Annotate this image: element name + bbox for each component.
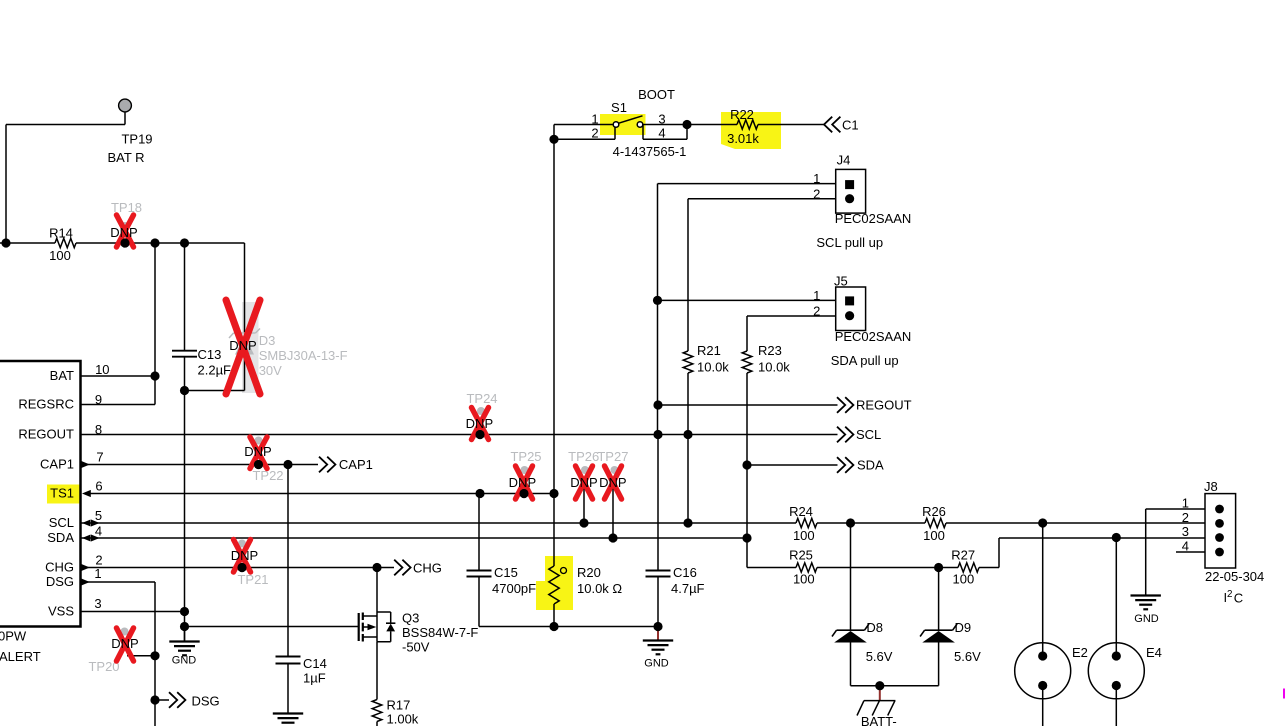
svg-text:TP26: TP26	[568, 449, 599, 464]
svg-text:SDA: SDA	[857, 458, 884, 473]
svg-text:4700pF: 4700pF	[492, 581, 536, 596]
svg-text:C15: C15	[494, 565, 518, 580]
svg-text:C14: C14	[303, 656, 327, 671]
svg-text:PEC02SAAN: PEC02SAAN	[835, 329, 912, 344]
svg-text:TS1: TS1	[50, 485, 74, 500]
svg-text:REGSRC: REGSRC	[18, 396, 74, 411]
svg-text:SMBJ30A-13-F: SMBJ30A-13-F	[259, 348, 348, 363]
svg-text:2.2µF: 2.2µF	[198, 363, 232, 378]
svg-text:R14: R14	[49, 226, 73, 241]
svg-text:3.01k: 3.01k	[727, 131, 759, 146]
svg-text:PEC02SAAN: PEC02SAAN	[835, 211, 912, 226]
svg-text:DNP: DNP	[509, 475, 536, 490]
svg-text:BAT: BAT	[50, 368, 74, 383]
svg-text:DNP: DNP	[570, 475, 597, 490]
svg-text:DNP: DNP	[599, 475, 626, 490]
svg-text:10.0k: 10.0k	[697, 360, 729, 375]
svg-text:1: 1	[813, 288, 820, 303]
svg-text:4: 4	[658, 126, 665, 141]
svg-text:3: 3	[94, 596, 101, 611]
svg-text:S1: S1	[611, 100, 627, 115]
svg-text:R26: R26	[922, 504, 946, 519]
svg-text:100: 100	[49, 248, 71, 263]
svg-text:TP27: TP27	[597, 449, 628, 464]
svg-text:3: 3	[658, 112, 665, 127]
svg-text:DNP: DNP	[466, 416, 493, 431]
svg-text:9: 9	[95, 392, 102, 407]
svg-text:Q3: Q3	[402, 611, 419, 626]
svg-text:DSG: DSG	[46, 574, 74, 589]
svg-text:DNP: DNP	[231, 548, 258, 563]
svg-text:100: 100	[923, 528, 945, 543]
svg-text:R24: R24	[789, 504, 813, 519]
svg-text:R22: R22	[730, 107, 754, 122]
svg-text:5.6V: 5.6V	[954, 649, 981, 664]
svg-text:C13: C13	[198, 347, 222, 362]
svg-text:CHG: CHG	[413, 561, 442, 576]
svg-text:J5: J5	[834, 274, 848, 289]
svg-text:10.0k: 10.0k	[758, 360, 790, 375]
svg-text:TP21: TP21	[237, 572, 268, 587]
svg-text:1: 1	[1182, 496, 1189, 511]
svg-text:2: 2	[591, 126, 598, 141]
svg-text:30V: 30V	[259, 363, 282, 378]
svg-text:CAP1: CAP1	[40, 456, 74, 471]
svg-text:GND: GND	[172, 655, 197, 667]
svg-text:1: 1	[591, 112, 598, 127]
svg-text:DNP: DNP	[110, 225, 137, 240]
svg-text:R20: R20	[577, 565, 601, 580]
svg-text:REGOUT: REGOUT	[856, 398, 912, 413]
svg-text:ALERT: ALERT	[0, 649, 41, 664]
svg-text:1: 1	[813, 171, 820, 186]
svg-text:10: 10	[95, 362, 109, 377]
svg-text:J8: J8	[1204, 479, 1218, 494]
svg-text:C: C	[1234, 591, 1243, 606]
svg-text:VSS: VSS	[48, 603, 74, 618]
svg-text:4-1437565-1: 4-1437565-1	[613, 144, 687, 159]
svg-text:GND: GND	[644, 658, 669, 670]
svg-text:BSS84W-7-F: BSS84W-7-F	[402, 625, 478, 640]
svg-text:D9: D9	[955, 620, 972, 635]
svg-text:TP25: TP25	[510, 449, 541, 464]
svg-text:SCL: SCL	[856, 427, 881, 442]
svg-text:R23: R23	[758, 343, 782, 358]
svg-text:DNP: DNP	[229, 338, 256, 353]
svg-text:R21: R21	[697, 343, 721, 358]
svg-text:0PW: 0PW	[0, 629, 27, 644]
svg-text:R27: R27	[951, 548, 975, 563]
svg-text:C1: C1	[842, 118, 859, 133]
svg-text:BATT-: BATT-	[861, 714, 897, 726]
svg-text:DNP: DNP	[111, 636, 138, 651]
svg-text:5: 5	[95, 508, 102, 523]
svg-text:2: 2	[1182, 510, 1189, 525]
svg-text:E4: E4	[1146, 645, 1162, 660]
svg-text:CAP1: CAP1	[339, 457, 373, 472]
svg-text:4: 4	[95, 523, 102, 538]
svg-text:CHG: CHG	[45, 559, 74, 574]
svg-text:7: 7	[96, 450, 103, 465]
svg-text:10.0k Ω: 10.0k Ω	[577, 581, 622, 596]
svg-text:E2: E2	[1072, 645, 1088, 660]
svg-text:R25: R25	[789, 548, 813, 563]
svg-text:100: 100	[793, 571, 815, 586]
svg-text:SCL: SCL	[49, 515, 74, 530]
svg-text:REGOUT: REGOUT	[18, 426, 74, 441]
svg-text:4: 4	[1182, 539, 1189, 554]
svg-text:SDA pull up: SDA pull up	[831, 353, 899, 368]
svg-text:4.7µF: 4.7µF	[671, 581, 705, 596]
svg-text:BAT R: BAT R	[107, 150, 144, 165]
svg-text:SDA: SDA	[47, 530, 74, 545]
svg-text:TP24: TP24	[466, 391, 497, 406]
svg-text:GND: GND	[1134, 613, 1159, 625]
svg-text:100: 100	[953, 571, 975, 586]
svg-text:J4: J4	[837, 153, 851, 168]
svg-text:22-05-304: 22-05-304	[1205, 569, 1264, 584]
svg-text:-50V: -50V	[402, 640, 430, 655]
svg-text:100: 100	[793, 528, 815, 543]
svg-text:1µF: 1µF	[303, 671, 326, 686]
svg-text:TP19: TP19	[121, 132, 152, 147]
svg-text:8: 8	[95, 422, 102, 437]
svg-text:SCL pull up: SCL pull up	[816, 235, 883, 250]
svg-text:1: 1	[94, 566, 101, 581]
svg-text:R17: R17	[387, 698, 411, 713]
svg-text:3: 3	[1182, 524, 1189, 539]
svg-text:2: 2	[1227, 589, 1232, 600]
svg-text:C16: C16	[673, 565, 697, 580]
svg-text:2: 2	[813, 303, 820, 318]
svg-text:BOOT: BOOT	[638, 87, 675, 102]
svg-text:D8: D8	[866, 620, 883, 635]
svg-text:2: 2	[813, 186, 820, 201]
svg-text:5.6V: 5.6V	[866, 649, 893, 664]
svg-text:DSG: DSG	[192, 694, 220, 709]
svg-text:6: 6	[95, 479, 102, 494]
svg-text:1.00k: 1.00k	[387, 712, 419, 726]
svg-text:D3: D3	[259, 333, 276, 348]
svg-text:DNP: DNP	[244, 444, 271, 459]
